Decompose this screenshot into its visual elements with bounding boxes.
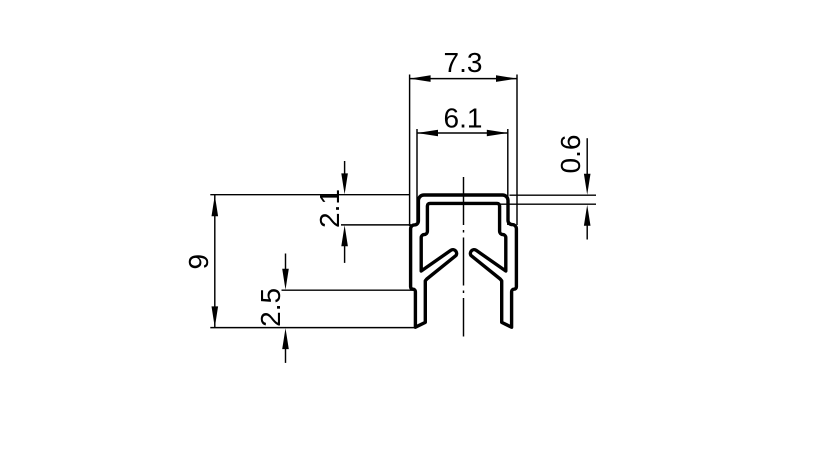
dim 0.6: lower extension line (498, 203, 597, 205)
dim 0.6: lower arrowhead (584, 205, 591, 226)
dim 2.1 / 9: shared top extension line (210, 194, 409, 196)
svg-text:2.5: 2.5 (255, 288, 286, 327)
centerline (463, 177, 465, 337)
svg-text:2.1: 2.1 (314, 189, 345, 228)
dim 2.5: upper shaft (285, 254, 287, 281)
dim 7.3: left arrowhead (410, 75, 431, 82)
dim 7.3: right arrowhead (496, 75, 517, 82)
dim 7.3: right extension line (516, 75, 518, 226)
dim 2.5: lower shaft (285, 338, 287, 363)
dim 2.1: upper arrowhead (341, 173, 348, 194)
dim 6.1: right extension line (507, 129, 509, 225)
dim 9 / 2.5: shared bottom extension line (210, 327, 414, 329)
dim 7.3: dimension line (410, 78, 517, 80)
svg-text:9: 9 (183, 254, 214, 270)
dim 9: top arrowhead (212, 195, 219, 216)
dim 2.1: lower shaft (344, 235, 346, 263)
dim 0.6: lower shaft (586, 215, 588, 240)
profile outline (411, 195, 517, 327)
dim 6.1: dimension line (417, 132, 508, 134)
dim 6.1: left extension line (416, 129, 418, 222)
dim 9: bottom arrowhead (212, 306, 219, 327)
dim 2.5: lower arrowhead (282, 328, 289, 349)
dim 9: dimension line (214, 195, 216, 327)
svg-text:0.6: 0.6 (555, 135, 586, 174)
dim 0.6: upper arrowhead (584, 174, 591, 195)
dim 6.1: right arrowhead (487, 130, 508, 137)
dim 2.5: upper arrowhead (282, 269, 289, 290)
svg-text:6.1: 6.1 (444, 103, 483, 134)
dim 0.6: upper shaft (586, 138, 588, 185)
dim 2.5: upper extension line (282, 289, 415, 291)
dim 0.6: upper extension line (510, 194, 597, 196)
dim 7.3: left extension line (409, 75, 411, 227)
dim 2.1: lower arrowhead (341, 225, 348, 246)
dim 2.1: lower extension line (341, 224, 411, 226)
svg-text:7.3: 7.3 (444, 47, 483, 78)
dim 2.1: upper shaft (344, 161, 346, 185)
dim 6.1: left arrowhead (417, 130, 438, 137)
